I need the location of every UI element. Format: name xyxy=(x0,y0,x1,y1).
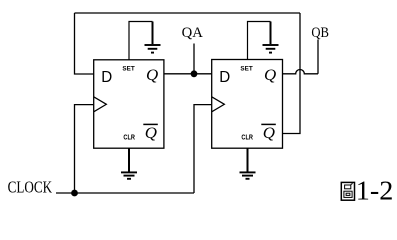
svg-text:CLR: CLR xyxy=(241,134,253,141)
svg-text:SET: SET xyxy=(122,65,135,72)
wire top feedback rail xyxy=(75,12,301,14)
flip-flop U2 clock triangle xyxy=(212,97,225,112)
ground at CLR of U1 xyxy=(121,172,137,178)
wire left feedback vertical to D of U1 xyxy=(75,13,94,74)
svg-text:CLOCK: CLOCK xyxy=(8,177,53,196)
svg-text:Q: Q xyxy=(264,67,277,84)
svg-text:CLR: CLR xyxy=(123,134,135,141)
svg-text:QA: QA xyxy=(182,24,203,41)
svg-text:Q: Q xyxy=(145,125,158,142)
wire CLR pin of U2 to ground xyxy=(247,148,249,171)
wire Q of U2 output with hop over feedback line xyxy=(283,70,319,74)
svg-text:SET: SET xyxy=(240,65,253,72)
ground at SET of U1 xyxy=(145,22,161,53)
node clock junction dot xyxy=(71,190,78,197)
flip-flop U2 box xyxy=(212,60,283,149)
svg-text:QB: QB xyxy=(311,25,329,41)
svg-text:D: D xyxy=(101,69,112,86)
svg-text:D: D xyxy=(219,69,230,86)
wire clock rail xyxy=(56,192,194,194)
ground at CLR of U2 xyxy=(240,172,256,178)
wire Q of U1 to D of U2 xyxy=(164,73,212,75)
svg-text:1-2: 1-2 xyxy=(356,176,394,206)
wire SET pin of U2 to ground xyxy=(248,22,271,60)
flip-flop U1 box xyxy=(94,60,164,148)
wire QA stub up xyxy=(193,44,195,74)
flip-flop U1 clock triangle xyxy=(94,97,107,112)
caption figure character tu (圖) drawn as strokes xyxy=(341,182,354,200)
wire clock to U2 xyxy=(194,105,212,193)
wire SET pin of U1 to ground xyxy=(129,22,153,60)
wire CLR pin of U1 to ground xyxy=(128,148,130,171)
wire right feedback vertical from Q-bar of U2 xyxy=(283,13,301,134)
node QA junction dot xyxy=(191,70,198,77)
ground at SET of U2 xyxy=(263,22,279,53)
svg-text:Q: Q xyxy=(263,125,276,142)
wire QB stub up xyxy=(317,40,319,74)
svg-text:Q: Q xyxy=(146,67,159,84)
wire clock to U1 xyxy=(75,105,94,193)
